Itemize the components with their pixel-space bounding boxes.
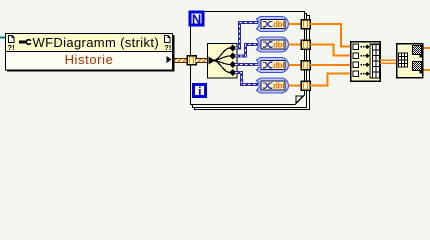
row 4 xyxy=(353,71,359,77)
row 1 xyxy=(353,44,359,50)
wire: dbl1 to tunnel T1 xyxy=(289,23,302,25)
wire W4: unbundle out4 to dbl4 xyxy=(235,73,258,85)
svg-text:dbl: dbl xyxy=(273,61,284,70)
svg-text:dbl: dbl xyxy=(273,20,284,29)
svg-text:N: N xyxy=(192,11,201,26)
conversion bullet dbl1 xyxy=(257,17,289,32)
row 2 xyxy=(353,53,359,59)
tunnel T3 xyxy=(301,61,310,70)
wire W3: unbundle out3 to dbl3 xyxy=(235,63,258,66)
wire W2: unbundle out2 to dbl2 xyxy=(235,45,258,57)
svg-text:WFDiagramm (strikt): WFDiagramm (strikt) xyxy=(33,35,160,50)
output 2D array glyph xyxy=(370,44,372,78)
loop corner fold (dog-ear) xyxy=(296,96,303,103)
checker 1 xyxy=(413,46,422,55)
tunnel T2 xyxy=(301,40,310,49)
grid glyph xyxy=(399,53,408,67)
loop count terminal N xyxy=(190,11,203,26)
icon: page with ?! (right) xyxy=(164,35,171,52)
icon: key glyph xyxy=(19,40,32,45)
unbundle node xyxy=(208,44,238,79)
arrow: property read direction xyxy=(167,56,172,63)
wire W1: unbundle out1 to dbl1 (navy dashed) xyxy=(235,23,258,49)
conversion bullet dbl3 xyxy=(257,58,289,73)
build array node xyxy=(351,42,381,82)
label: property Historie xyxy=(65,52,114,67)
tunnel T1 xyxy=(301,20,310,29)
icon: page with ?! (left) xyxy=(8,35,15,52)
tunnel T4 xyxy=(301,81,310,90)
wire: T4 to build array in4 xyxy=(310,74,350,86)
wire: 2D array build to icon node (double orange) xyxy=(380,59,396,64)
wire: T1 to build array in1 xyxy=(310,24,350,47)
wire: icon out2 xyxy=(424,69,430,71)
loop iteration terminal i xyxy=(194,84,206,99)
row 3 xyxy=(353,62,359,68)
wire: Historie array-of-cluster (hatched) to tunnel xyxy=(175,58,188,63)
wire: dbl4 to tunnel T4 xyxy=(289,85,302,87)
wire: dbl2 to tunnel T2 xyxy=(289,44,302,46)
svg-text:?!: ?! xyxy=(164,43,171,52)
wire: control refnum (teal) xyxy=(0,37,6,39)
svg-text:Historie: Historie xyxy=(65,52,114,67)
wire: icon out1 xyxy=(424,47,430,49)
conversion bullet dbl4 xyxy=(257,78,289,93)
for loop frame (classic stacked) xyxy=(191,12,310,110)
tunnel T0 (left, auto-indexing) xyxy=(187,56,196,65)
wire: hatched tunnel to unbundle xyxy=(196,58,207,63)
svg-text:?!: ?! xyxy=(8,43,15,52)
wire: T2 to build array in2 xyxy=(310,45,350,56)
conversion bullet dbl2 xyxy=(257,37,289,52)
svg-text:i: i xyxy=(198,84,202,99)
svg-text:dbl: dbl xyxy=(273,41,284,50)
icon node (subVI) xyxy=(397,44,423,78)
label: class name xyxy=(33,35,160,50)
wire: T3 to build array in3 xyxy=(310,64,350,66)
property node U1: WFDiagramm (strikt) / Historie xyxy=(6,34,175,72)
wire: dbl3 to tunnel T3 xyxy=(289,64,302,66)
checker 2 xyxy=(413,62,422,71)
svg-text:dbl: dbl xyxy=(273,82,284,91)
